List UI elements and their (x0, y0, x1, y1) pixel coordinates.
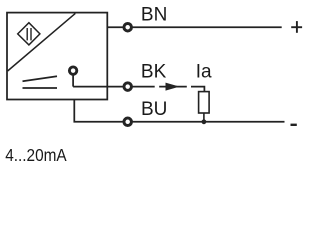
svg-text:BN: BN (141, 4, 167, 25)
svg-text:BU: BU (141, 99, 167, 120)
svg-text:BK: BK (141, 62, 167, 83)
svg-text:Ia: Ia (196, 62, 212, 83)
svg-text:4...20mA: 4...20mA (5, 145, 67, 165)
